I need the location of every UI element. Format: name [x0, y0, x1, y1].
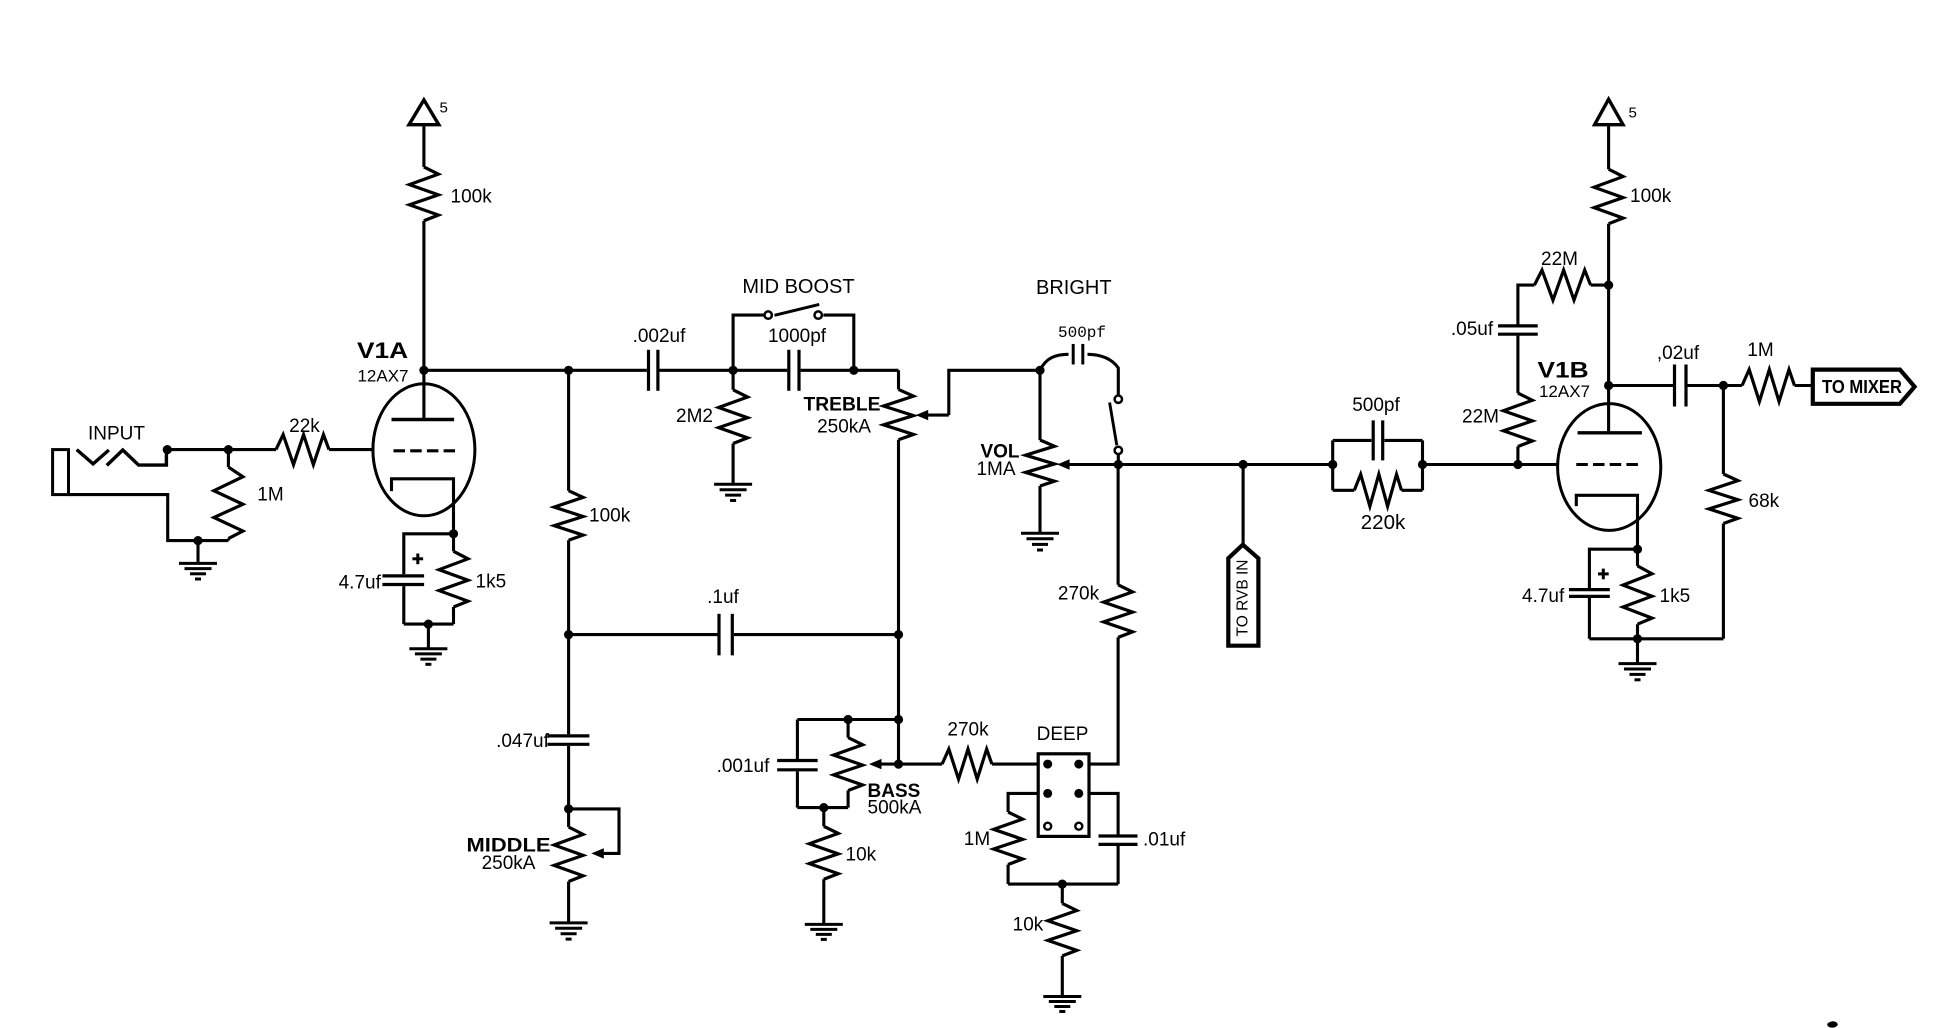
potentiometer TREBLE 250kA	[884, 370, 914, 719]
svg-text:V1B: V1B	[1538, 358, 1589, 383]
node V1A cathode ground	[424, 620, 433, 629]
label 12AX7 (V1B)	[1539, 382, 1590, 401]
potentiometer VOL 1MA	[1026, 370, 1055, 533]
mid boost switch contact A	[765, 311, 772, 318]
svg-text:5: 5	[1629, 105, 1637, 122]
mid boost switch wiring	[733, 315, 854, 370]
node .1uf left	[564, 630, 573, 639]
DEEP pin 1	[1043, 760, 1052, 769]
wire 100k to plate	[422, 221, 425, 420]
plus sign 4.7uf V1B	[1598, 569, 1609, 580]
tube V1B cathode	[1576, 495, 1637, 549]
wire .1uf left	[569, 633, 718, 636]
label 4.7uf V1A	[339, 573, 382, 594]
resistor 270k (horizontal)	[942, 749, 992, 779]
capacitor 500pf (bright) plates	[1073, 344, 1083, 365]
label 4.7uf V1B	[1522, 586, 1565, 607]
label .047uf	[496, 731, 550, 752]
svg-text:100k: 100k	[589, 506, 631, 527]
wire 1M to bottom	[1007, 865, 1010, 885]
label 1k5 V1A	[476, 572, 507, 593]
label BASS	[868, 781, 921, 802]
ground V1B cathode	[1619, 639, 1657, 680]
wire cathode bottom	[404, 623, 454, 626]
svg-text:1MA: 1MA	[976, 459, 1015, 480]
capacitor .002uf (coupling)	[649, 350, 658, 391]
treble wiper	[916, 370, 1040, 420]
resistor 1M (deep)	[994, 812, 1023, 865]
potentiometer BASS 500kA	[834, 720, 863, 808]
resistor 100k (V1A plate)	[409, 167, 438, 221]
svg-text:22M: 22M	[1462, 407, 1499, 428]
wire cap to bottom	[402, 586, 405, 624]
wire 270k to vol bus	[1117, 465, 1120, 585]
wire slope top	[567, 370, 570, 490]
capacitor 500pf (coupling)	[1373, 420, 1383, 460]
label 250kA middle	[482, 853, 536, 874]
node output tee	[1719, 381, 1728, 390]
node bright sw bottom	[1114, 460, 1123, 469]
label 1M input	[257, 485, 283, 506]
wire deep mid-right to .01uf	[1089, 793, 1118, 834]
wire B+ to 100k	[422, 123, 425, 167]
label V1B	[1538, 358, 1589, 383]
svg-text:100k: 100k	[1630, 186, 1672, 207]
capacitor 4.7uf (V1A cathode bypass)	[382, 576, 424, 585]
svg-text:1k5: 1k5	[476, 572, 507, 593]
label 22M lower	[1462, 407, 1499, 428]
label 100k V1B	[1630, 186, 1672, 207]
ground MIDDLE	[550, 882, 588, 940]
resistor 1k5 (V1B cathode)	[1623, 549, 1652, 639]
svg-text:1M: 1M	[964, 829, 990, 850]
node jack-out	[163, 445, 172, 454]
plus sign 4.7uf V1A	[412, 554, 423, 565]
tube V1B envelope	[1558, 404, 1661, 531]
ground bass 10k	[805, 924, 843, 939]
wire ,02uf to 1M	[1688, 384, 1743, 387]
wire bass bottom	[797, 806, 848, 809]
tube V1A grid (dashed)	[394, 449, 456, 452]
mid boost switch contact B	[815, 311, 822, 318]
node V1B feedback	[1604, 281, 1613, 290]
svg-text:DEEP: DEEP	[1037, 724, 1089, 745]
label 2M2	[676, 406, 713, 427]
wire deep right-top to 270k	[1089, 637, 1118, 764]
label 1k5 V1B	[1660, 586, 1691, 607]
label 100k slope	[589, 506, 631, 527]
svg-text:250kA: 250kA	[817, 417, 871, 438]
node bright top	[1035, 366, 1044, 375]
label 68k	[1749, 491, 1780, 512]
label VOL	[980, 442, 1019, 463]
svg-text:500pf: 500pf	[1352, 395, 1400, 416]
wire .01uf to bottom	[1117, 846, 1120, 884]
wire bright switch to bus	[1117, 455, 1120, 465]
label 22k	[289, 416, 320, 437]
svg-text:TO MIXER: TO MIXER	[1822, 377, 1902, 397]
label 270k v	[1058, 584, 1100, 605]
wire jack to grid	[167, 448, 374, 451]
resistor 270k (vertical)	[1104, 585, 1133, 638]
label 100k V1A plate	[451, 187, 493, 208]
svg-text:1M: 1M	[257, 485, 283, 506]
label ,02uf	[1657, 343, 1700, 364]
wire deep bottom	[1008, 883, 1118, 886]
label 270k h	[947, 720, 989, 741]
label 22M upper	[1541, 249, 1578, 270]
bright switch lever	[1110, 403, 1117, 446]
label 500pf bright	[1058, 324, 1106, 342]
wire V1B cathode to cap	[1589, 549, 1637, 588]
svg-text:4.7uf: 4.7uf	[1522, 586, 1565, 607]
flag TO MIXER	[1813, 370, 1915, 404]
label 10k bass	[846, 845, 877, 866]
wire plate to ,02uf	[1609, 384, 1674, 387]
label .001uf	[717, 756, 771, 777]
label INPUT	[88, 423, 145, 444]
wire parallel to grid	[1423, 463, 1560, 466]
bright switch contact top	[1115, 396, 1122, 403]
vol wiper and bus	[1057, 459, 1333, 469]
svg-text:4.7uf: 4.7uf	[339, 573, 382, 594]
svg-text:V1A: V1A	[357, 338, 408, 363]
label 250kA treble	[817, 417, 871, 438]
label 1M deep	[964, 829, 990, 850]
svg-text:10k: 10k	[1013, 915, 1044, 936]
svg-text:270k: 270k	[947, 720, 989, 741]
svg-text:5: 5	[440, 99, 448, 116]
wire V1B cathode bottom	[1589, 637, 1723, 640]
svg-text:,02uf: ,02uf	[1657, 343, 1700, 364]
node bass pot top	[844, 715, 853, 724]
ground input	[179, 541, 217, 579]
label MID BOOST	[742, 276, 854, 298]
label 1000pf	[768, 326, 827, 347]
label MIDDLE	[467, 836, 551, 857]
wire deep mid-left to 1M	[1008, 793, 1038, 812]
capacitor 500pf (bright) leads	[1040, 354, 1118, 395]
middle wiper loop	[569, 809, 619, 859]
input jack tip/switch contacts	[77, 450, 167, 466]
label 5 (left)	[440, 99, 448, 116]
wire rvb drop	[1242, 465, 1245, 547]
svg-text:1k5: 1k5	[1660, 586, 1691, 607]
svg-text:INPUT: INPUT	[88, 423, 145, 444]
svg-text:22k: 22k	[289, 416, 320, 437]
svg-text:500pf: 500pf	[1058, 324, 1106, 342]
svg-text:250kA: 250kA	[482, 853, 536, 874]
power node 5 (right) arrow	[1595, 99, 1623, 125]
capacitor .001uf	[777, 720, 818, 808]
svg-text:.002uf: .002uf	[633, 326, 687, 347]
capacitor .05uf	[1498, 326, 1538, 334]
ground V1A cathode	[409, 624, 447, 664]
ground 2M2	[714, 484, 752, 500]
DEEP pin 2	[1074, 760, 1083, 769]
resistor 100k (V1B plate)	[1594, 169, 1623, 224]
wire 22M to plate	[1591, 284, 1609, 287]
bass wiper	[869, 759, 899, 769]
power node 5 (left) arrow	[409, 100, 439, 125]
potentiometer MIDDLE 250kA	[554, 827, 583, 882]
wire 100k to V1B plate	[1607, 224, 1610, 433]
ground VOL	[1021, 533, 1059, 550]
svg-text:1000pf: 1000pf	[768, 326, 827, 347]
label V1A	[357, 338, 408, 363]
wire 1M to flag	[1795, 384, 1813, 387]
wire .047 to middle	[567, 746, 570, 827]
label TO RVB IN	[1235, 560, 1252, 637]
node V1A cathode	[449, 529, 458, 538]
wire slope mid	[567, 540, 570, 734]
label 1M output	[1747, 340, 1773, 361]
resistor 22M (upper)	[1534, 270, 1590, 300]
capacitor ,02uf	[1675, 365, 1687, 407]
resistor 1k5 (V1A cathode)	[439, 534, 468, 624]
label 5 (right)	[1629, 105, 1637, 122]
node V1B cathode	[1633, 545, 1642, 554]
wire bass top	[797, 718, 898, 721]
label 500pf parallel	[1352, 395, 1400, 416]
node bass wiper	[894, 760, 903, 769]
label 220k	[1361, 511, 1406, 534]
resistor 68k	[1709, 386, 1738, 639]
svg-text:1M: 1M	[1747, 340, 1773, 361]
node parallel right	[1418, 460, 1427, 469]
node 1M top	[224, 445, 233, 454]
node V1B grid	[1513, 460, 1522, 469]
node bass top right	[894, 715, 903, 724]
svg-text:TREBLE: TREBLE	[804, 395, 881, 416]
svg-text:MID BOOST: MID BOOST	[742, 276, 854, 298]
node V1A plate	[419, 366, 428, 375]
resistor 2M2	[719, 370, 748, 484]
node mid-boost right	[849, 366, 858, 375]
DEEP pin 3	[1043, 789, 1052, 798]
wire treble-bass link	[897, 720, 900, 765]
node middle top	[564, 804, 573, 813]
wire jack sleeve to ground	[69, 495, 229, 541]
resistor 1M (output)	[1742, 370, 1794, 402]
bright switch contact bottom	[1115, 447, 1122, 454]
svg-text:10k: 10k	[846, 845, 877, 866]
switch DEEP body	[1038, 754, 1089, 837]
wire .1uf right	[734, 633, 899, 636]
svg-text:TO RVB IN: TO RVB IN	[1235, 560, 1252, 637]
node .1uf right	[894, 630, 903, 639]
label TREBLE	[804, 395, 881, 416]
resistor 10k (deep)	[1048, 884, 1077, 996]
label BRIGHT	[1036, 277, 1112, 299]
node V1B ground	[1633, 634, 1642, 643]
node bass 10k top	[819, 803, 828, 812]
input jack J1 body	[53, 450, 69, 495]
svg-text:.047uf: .047uf	[496, 731, 550, 752]
svg-text:270k: 270k	[1058, 584, 1100, 605]
DEEP pin 6	[1075, 823, 1082, 830]
capacitor .047uf	[547, 736, 589, 744]
DEEP pin 5	[1044, 823, 1051, 830]
resistor 22M (lower)	[1503, 393, 1532, 464]
tube V1A envelope	[373, 384, 475, 516]
node mid-boost left	[729, 366, 738, 375]
svg-text:.05uf: .05uf	[1451, 319, 1494, 340]
resistor 22k (grid stopper)	[276, 435, 329, 465]
svg-text:500kA: 500kA	[868, 798, 922, 819]
node slope junction	[564, 366, 573, 375]
wire B+ to 100k right	[1607, 123, 1610, 169]
label .1uf	[707, 587, 739, 608]
flag TO RVB IN	[1228, 545, 1258, 646]
label .05uf	[1451, 319, 1494, 340]
capacitor .01uf	[1099, 836, 1138, 844]
svg-text:220k: 220k	[1361, 511, 1406, 534]
resistor 100k (slope)	[554, 491, 583, 541]
svg-text:12AX7: 12AX7	[1539, 382, 1590, 401]
DEEP pin 4	[1074, 789, 1083, 798]
resistor 220k	[1354, 474, 1401, 506]
wire plate bus	[424, 369, 899, 372]
tube V1B grid (dashed)	[1576, 463, 1640, 466]
label TO MIXER	[1822, 377, 1902, 397]
svg-text:2M2: 2M2	[676, 406, 713, 427]
label 500kA bass	[868, 798, 922, 819]
resistor 1M (input load)	[214, 450, 243, 541]
node input ground	[193, 536, 202, 545]
node V1B plate	[1604, 381, 1613, 390]
capacitor .1uf	[719, 614, 732, 656]
tube V1A plate bar	[392, 418, 455, 421]
svg-text:.001uf: .001uf	[717, 756, 771, 777]
svg-text:68k: 68k	[1749, 491, 1780, 512]
label 12AX7 (V1A)	[357, 367, 408, 386]
wire V1B cap to bottom	[1588, 598, 1591, 639]
label 10k deep	[1013, 915, 1044, 936]
node deep bottom	[1058, 880, 1067, 889]
mid boost switch lever	[775, 304, 820, 315]
capacitor 4.7uf (V1B cathode)	[1569, 590, 1610, 597]
svg-text:100k: 100k	[451, 187, 493, 208]
label .01uf	[1143, 830, 1186, 851]
tube V1A cathode	[392, 479, 454, 534]
tube V1B plate bar	[1578, 431, 1642, 434]
stray mark	[1827, 1021, 1838, 1028]
svg-text:BRIGHT: BRIGHT	[1036, 277, 1112, 299]
wire 22M to .05uf	[1516, 336, 1519, 394]
node parallel left	[1328, 460, 1337, 469]
capacitor 1000pf (mid boost)	[789, 350, 799, 391]
svg-text:12AX7: 12AX7	[357, 367, 408, 386]
node rvb tap	[1239, 460, 1248, 469]
resistor 10k (bass)	[809, 808, 838, 925]
svg-text:22M: 22M	[1541, 249, 1578, 270]
wire .05uf up	[1518, 285, 1535, 325]
ground deep 10k	[1043, 997, 1081, 1012]
wire to 270k	[899, 763, 1039, 766]
label .002uf	[633, 326, 687, 347]
svg-text:.1uf: .1uf	[707, 587, 739, 608]
svg-text:.01uf: .01uf	[1143, 830, 1186, 851]
label 1MA	[976, 459, 1015, 480]
label DEEP	[1037, 724, 1089, 745]
wire cathode to bypass cap	[404, 534, 454, 575]
parallel network frame	[1333, 440, 1423, 490]
